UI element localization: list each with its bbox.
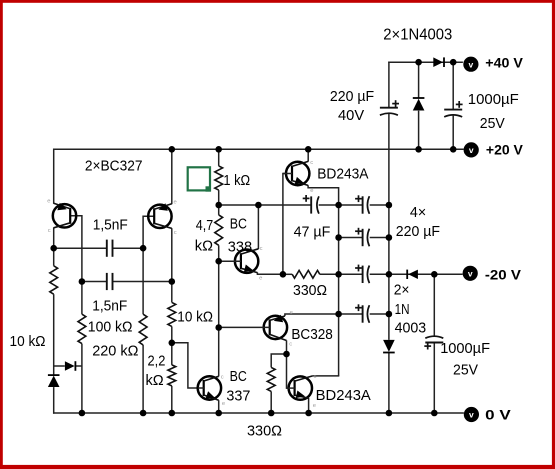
svg-text:e: e <box>259 275 262 281</box>
junction 0V/100k <box>79 410 86 417</box>
svg-text:4×: 4× <box>410 205 426 221</box>
svg-text:220 kΩ: 220 kΩ <box>92 343 138 359</box>
svg-text:100 kΩ: 100 kΩ <box>88 319 133 335</box>
terminal -20V <box>463 266 478 281</box>
wire BC337 emitter to 0V rail <box>218 400 220 413</box>
wire Q6 emitter to 0V rail <box>308 398 310 413</box>
wire ladder left to Q6 collector <box>313 375 340 377</box>
wire node B to diode D5 <box>54 365 65 367</box>
wire 100k top lead <box>81 282 83 315</box>
wire C8 bottom lead <box>452 116 454 150</box>
wire 220k lead top <box>142 248 144 314</box>
capacitor 220uF ladder 1 <box>362 196 364 213</box>
svg-text:c: c <box>310 160 313 166</box>
svg-text:c: c <box>314 374 317 380</box>
wire left branch below D6 to 0V rail <box>53 387 55 414</box>
resistor 10 kOhm middle <box>168 302 176 326</box>
junction 0V/330R <box>268 410 275 417</box>
svg-text:v: v <box>469 59 474 69</box>
wire left branch upper (Q1 emitter to +20V) <box>53 149 55 204</box>
wire left branch below 10k to node B <box>53 294 55 375</box>
transistor Q4 BC338 NPN <box>235 250 258 273</box>
wire ladder right top (+40V corner to C7) <box>388 62 390 108</box>
wire Q2 base drop <box>143 216 154 248</box>
wire cap C1b row left <box>82 281 107 283</box>
junction node R1 <box>169 278 176 285</box>
wire C8 top lead <box>452 62 454 109</box>
svg-text:1 kΩ: 1 kΩ <box>223 173 250 189</box>
transistor Q3 BD243A top NPN <box>286 162 309 185</box>
wire cap C6 right lead <box>370 313 389 315</box>
diode D3 1N4003 to -20V <box>408 270 418 279</box>
svg-text:10 kΩ: 10 kΩ <box>10 334 46 350</box>
svg-text:4003: 4003 <box>395 320 427 336</box>
transistor Q6 BD243A bottom NPN <box>289 376 312 399</box>
capacitor 220uF ladder 2 <box>362 229 364 246</box>
svg-text:330Ω: 330Ω <box>247 424 282 440</box>
wire node D to 330R vertical <box>271 354 286 367</box>
svg-text:BD243A: BD243A <box>317 166 369 182</box>
wire 330R to ladder left <box>320 273 339 275</box>
wire C9 bottom lead <box>433 343 435 413</box>
wire 330R vertical bottom to 0V rail <box>270 391 272 413</box>
wire BC338 emitter run <box>257 272 283 274</box>
wire +20V rail <box>53 148 464 150</box>
svg-text:BD243A: BD243A <box>316 388 371 404</box>
wire cap C3 left lead <box>339 204 363 206</box>
diode D1 1N4003 to +40V <box>433 57 443 67</box>
svg-text:10 kΩ: 10 kΩ <box>177 310 213 326</box>
svg-text:-20 V: -20 V <box>485 268 521 283</box>
wire BC328 emitter run <box>285 314 339 316</box>
svg-text:4,7: 4,7 <box>196 218 213 234</box>
wire 10k mid bottom to node C <box>171 326 173 342</box>
junction node A/BC338c <box>255 202 262 209</box>
capacitor 220uF ladder 3 <box>362 266 364 283</box>
diode D6 up <box>48 376 60 387</box>
transistor Q2 BC327 right PNP <box>148 205 171 228</box>
diode D2 1N4003 up <box>413 99 425 111</box>
junction node L2 <box>140 245 147 252</box>
wire D4 to 0V rail <box>388 353 390 413</box>
wire node C to BC337 base <box>172 343 198 388</box>
junction BC338 base node <box>215 258 222 265</box>
junction ladder L row1 <box>335 202 342 209</box>
junction +20V/C8 <box>450 146 457 153</box>
junction 0V/Q5e <box>215 410 222 417</box>
wire C9 top lead <box>433 274 435 335</box>
resistor 100 kOhm <box>78 314 86 343</box>
svg-text:e: e <box>290 310 293 316</box>
junction +20V/Q2e <box>169 146 176 153</box>
junction -20V/ladder L <box>335 271 342 278</box>
green selection square <box>188 167 210 190</box>
svg-text:kΩ: kΩ <box>195 238 213 254</box>
wire Q2 collector down to node R1 <box>171 228 173 281</box>
wire Q2 emitter to +20V rail <box>171 149 173 204</box>
svg-text:1,5nF: 1,5nF <box>92 299 127 315</box>
junction 0V/Q6e <box>305 410 312 417</box>
svg-text:337: 337 <box>226 388 250 404</box>
wire ladder right col (C7 to D4) <box>388 114 390 340</box>
wire 1k to 4.7k node A <box>218 190 220 215</box>
resistor 1 kOhm <box>215 166 223 190</box>
wire cap C1b row right <box>113 281 172 283</box>
transistor Q1 BC327 left PNP <box>53 204 76 227</box>
wire 220k bottom to 0V rail <box>142 345 144 413</box>
svg-text:+40 V: +40 V <box>485 56 523 71</box>
junction 0V/2.2k <box>169 410 176 417</box>
svg-text:c: c <box>174 230 177 236</box>
svg-text:v: v <box>469 145 474 155</box>
wire cap C5 right lead <box>370 273 389 275</box>
junction +40V/D2 <box>415 59 422 66</box>
svg-text:220 µF: 220 µF <box>396 224 440 240</box>
wire cap C1a row left <box>54 247 107 249</box>
svg-text:e: e <box>47 199 50 205</box>
resistor 330 Ohm horizontal <box>292 270 320 278</box>
svg-text:1000µF: 1000µF <box>468 92 519 108</box>
junction -20V/C9 <box>431 271 438 278</box>
junction ladder L row4 <box>335 311 342 318</box>
svg-text:BC: BC <box>230 369 247 385</box>
junction 0V/C9 <box>431 410 438 417</box>
svg-text:c: c <box>48 228 51 234</box>
terminal 0V <box>464 407 479 422</box>
junction node L1 <box>50 245 57 252</box>
wire left branch Q1 collector down to node L1 <box>53 227 55 265</box>
junction -20V/BC338e <box>280 271 287 278</box>
capacitor 1000uF 25V upper <box>444 109 462 111</box>
junction +40V/C8 <box>450 59 457 66</box>
junction 0V/D4 <box>386 410 393 417</box>
svg-text:40V: 40V <box>338 108 364 124</box>
svg-text:220 µF: 220 µF <box>330 89 374 105</box>
diode D4 1N4003 down <box>383 340 395 352</box>
transistor Q7 BC328 PNP <box>264 316 287 339</box>
junction node C 10k/2.2k <box>169 340 176 347</box>
capacitor 1000uF 25V lower <box>425 342 443 344</box>
svg-text:1,5nF: 1,5nF <box>93 217 128 233</box>
capacitor 1,5nF upper <box>106 240 108 257</box>
junction ladder R row4 <box>386 311 393 318</box>
resistor 4,7 kOhm <box>215 215 223 245</box>
junction +20V/1k <box>215 146 222 153</box>
svg-text:1000µF: 1000µF <box>440 341 490 357</box>
wire BC328 base node down to BC337 collector <box>218 328 220 377</box>
junction node R0 <box>79 278 86 285</box>
wire BC338 base node down to BC328 base node <box>218 261 220 327</box>
svg-text:338: 338 <box>228 240 252 256</box>
wire cap C4 right lead <box>370 237 389 239</box>
wire D5 to 100k bottom node <box>76 365 82 367</box>
red page border <box>0 0 555 3</box>
svg-text:2×BC327: 2×BC327 <box>85 159 143 175</box>
svg-text:e: e <box>222 401 225 407</box>
svg-text:+20 V: +20 V <box>486 142 523 157</box>
wire 1k top to +20V rail <box>218 149 220 166</box>
resistor 330 Ohm vertical <box>267 367 275 391</box>
wire node D to Q6 base <box>287 354 290 388</box>
wire 10k mid top lead <box>171 282 173 303</box>
svg-text:v: v <box>468 269 473 279</box>
wire 2.2k top lead <box>171 343 173 365</box>
junction ladder R row1 <box>386 202 393 209</box>
wire cap C1a row right <box>113 247 144 249</box>
svg-text:kΩ: kΩ <box>146 373 164 389</box>
junction 0V/220k <box>140 410 147 417</box>
svg-text:47 µF: 47 µF <box>294 224 331 240</box>
resistor 10 kOhm left <box>50 266 58 294</box>
wire BC338 collector riser <box>257 205 259 249</box>
wire -20V row left of 330R <box>283 273 292 275</box>
resistor 220 kOhm <box>139 314 147 345</box>
wire 4.7k bottom to BC338 base node <box>218 245 220 261</box>
svg-text:2,2: 2,2 <box>148 354 166 370</box>
wire -20V rail right segment <box>389 273 463 275</box>
wire BD243A-top base drop <box>283 174 287 275</box>
transistor Q5 BC337 NPN <box>198 376 221 399</box>
wire ladder left col <box>338 205 340 376</box>
junction ladder L row2 <box>335 234 342 241</box>
capacitor 1,5nF lower <box>106 273 108 290</box>
wire BC328 collector drop <box>286 340 288 354</box>
junction node D BC328c <box>283 351 290 358</box>
svg-text:25V: 25V <box>453 363 478 379</box>
capacitor 220uF ladder 4 <box>362 305 364 322</box>
wire Q1 base drop <box>70 216 82 282</box>
junction +20V/D2 <box>415 146 422 153</box>
junction -20V/ladder R <box>386 271 393 278</box>
svg-text:2×: 2× <box>394 282 410 298</box>
wire D2 branch bottom <box>418 111 420 150</box>
svg-text:BC328: BC328 <box>291 327 332 343</box>
capacitor 47 uF <box>310 196 312 213</box>
wire D2 branch top <box>418 62 420 98</box>
wire +40V rail <box>388 61 463 63</box>
wire 47uF right lead <box>319 204 339 206</box>
wire 0V rail <box>53 412 464 414</box>
junction ladder R row2 <box>386 234 393 241</box>
wire Q3 collector to +20V rail <box>307 149 309 161</box>
svg-text:c: c <box>260 246 263 252</box>
wire cap C5 left lead <box>339 273 363 275</box>
svg-text:c: c <box>221 374 224 380</box>
svg-text:1N: 1N <box>395 302 410 318</box>
svg-text:e: e <box>310 188 313 194</box>
wire cap C6 left lead <box>339 313 363 315</box>
wire node A row <box>219 204 312 206</box>
junction +20V/Q3c <box>305 146 312 153</box>
svg-text:330Ω: 330Ω <box>293 283 327 299</box>
svg-text:e: e <box>174 199 177 205</box>
terminal +20V <box>464 142 479 157</box>
svg-text:2×1N4003: 2×1N4003 <box>383 26 452 43</box>
diode D5 right <box>65 361 75 371</box>
svg-text:BC: BC <box>230 216 247 232</box>
svg-text:25V: 25V <box>480 116 505 132</box>
svg-text:0 V: 0 V <box>485 407 511 422</box>
junction BC328 base node <box>215 324 222 331</box>
wire 2.2k bottom to 0V rail <box>171 386 173 413</box>
terminal +40V <box>463 57 478 72</box>
junction node A/1k-4.7k <box>215 202 222 209</box>
wire cap C4 left lead <box>339 237 363 239</box>
svg-text:v: v <box>469 410 474 420</box>
resistor 2,2 kOhm <box>168 365 176 386</box>
capacitor 220uF 40V <box>380 107 398 109</box>
wire cap C3 right lead <box>370 204 389 206</box>
wire 100k bottom to 0V rail <box>81 344 83 413</box>
wire Q3 emitter run to ladder <box>308 185 339 205</box>
